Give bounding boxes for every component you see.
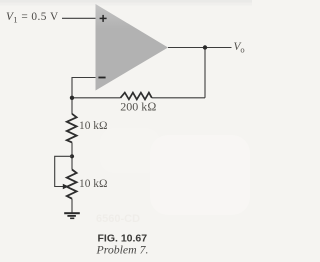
op-amp plus input symbol: [100, 15, 107, 22]
wire: minus terminal left then down to node A: [72, 78, 96, 115]
wiper arrowhead: [63, 184, 69, 190]
node B junction dot: [70, 154, 74, 158]
potentiometer R2 10 kOhm zigzag: [67, 170, 77, 199]
svg-text:Problem 7.: Problem 7.: [96, 243, 149, 257]
wire: node A to feedback resistor: [72, 97, 121, 99]
ground: [64, 213, 80, 218]
resistor 200 kOhm zigzag: [121, 93, 152, 100]
resistor R1 10 kOhm zigzag: [67, 114, 77, 143]
op-amp minus input symbol: [98, 77, 105, 79]
wire: input to + terminal: [62, 17, 96, 19]
output node junction dot: [203, 45, 207, 49]
svg-text:10 kΩ: 10 kΩ: [79, 178, 108, 190]
svg-text:200 kΩ: 200 kΩ: [120, 100, 156, 114]
background sheet: [0, 0, 252, 262]
wire: R1 bottom to node B: [71, 142, 73, 169]
svg-text:6560-CD: 6560-CD: [96, 213, 140, 225]
wire: R2 bottom to ground: [71, 199, 73, 213]
wire: wiper bypass loop: [55, 156, 72, 186]
node A junction dot: [70, 96, 74, 100]
wire: op-amp output to Vo: [168, 47, 232, 49]
svg-text:10 kΩ: 10 kΩ: [79, 120, 108, 132]
wire: resistor to feedback vertical: [152, 97, 205, 99]
wire: feedback vertical up to output node: [204, 48, 206, 98]
